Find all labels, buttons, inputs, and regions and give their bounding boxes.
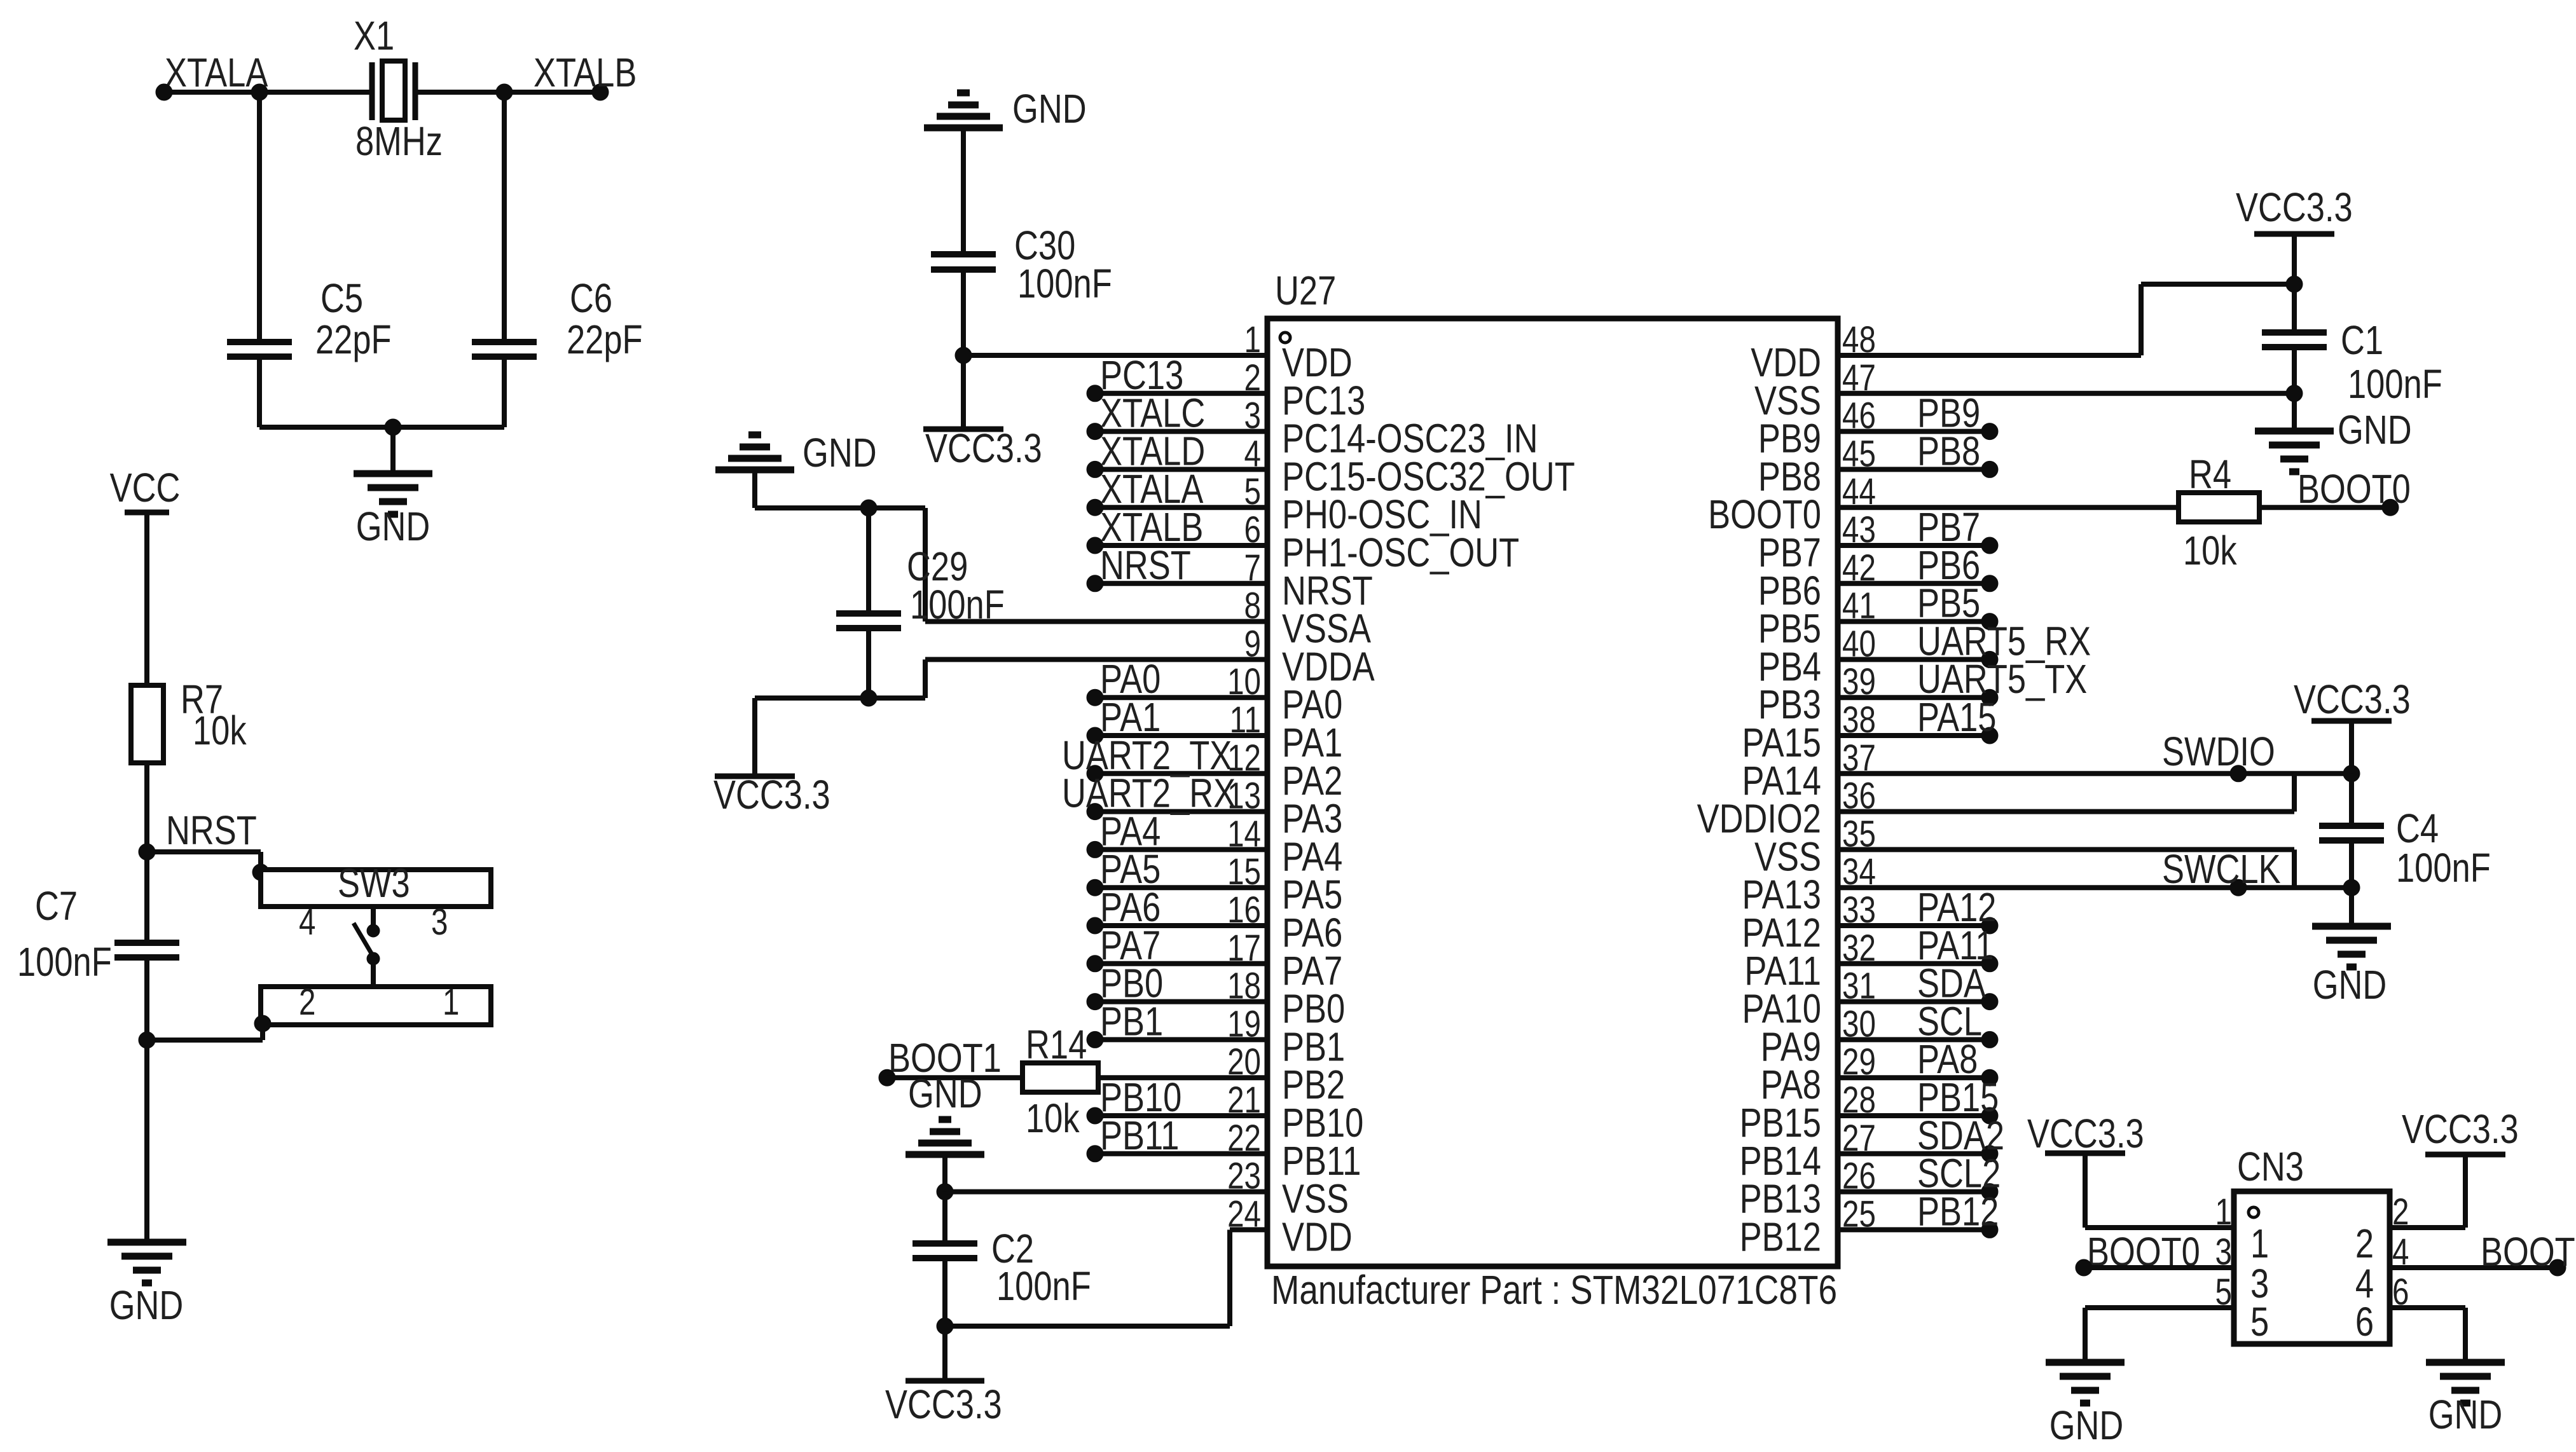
node UART2_TX <box>1062 733 1232 778</box>
wire <box>1838 923 1990 928</box>
svg-text:GND: GND <box>356 504 430 549</box>
power VCC3.3 <box>2027 1111 2144 1156</box>
ground <box>2312 926 2391 967</box>
pin number 3 <box>1244 395 1261 437</box>
resistor R4 <box>2179 493 2259 522</box>
value 100nF <box>2396 846 2491 891</box>
pin 1 <box>443 982 459 1024</box>
power VCC3.3 <box>885 1381 1002 1427</box>
svg-text:8MHz: 8MHz <box>355 119 443 164</box>
junction <box>1981 613 1998 630</box>
ground <box>2046 1362 2125 1403</box>
pin 2 <box>299 982 315 1024</box>
pin number 31 <box>1842 966 1876 1007</box>
wire <box>942 1326 947 1381</box>
label GND <box>2338 408 2412 453</box>
wire <box>2349 840 2354 926</box>
wire <box>1838 961 1990 966</box>
junction <box>254 1015 271 1032</box>
label GND <box>908 1071 982 1116</box>
label GND <box>109 1283 184 1328</box>
wire <box>1095 1113 1267 1118</box>
capacitor C7 <box>114 943 179 957</box>
node BOOT1 <box>2481 1229 2576 1275</box>
pin name VSS <box>1282 1177 1349 1222</box>
pin number 12 <box>1227 737 1261 779</box>
wire <box>1838 1113 1990 1118</box>
value 100nF <box>1017 261 1112 306</box>
junction <box>592 84 609 100</box>
wire <box>923 508 928 622</box>
pin name VDD <box>1282 340 1353 385</box>
junction <box>860 690 877 706</box>
junction <box>1087 1107 1103 1124</box>
resistor R7 <box>131 685 163 763</box>
pin name PA14 <box>1742 758 1821 804</box>
pin 5 <box>2250 1299 2269 1345</box>
wire <box>2349 774 2354 826</box>
node BOOT1 <box>888 1036 1002 1081</box>
power VCC3.3 <box>2294 677 2411 722</box>
node PB11 <box>1100 1113 1179 1158</box>
pin 4 <box>2355 1261 2374 1306</box>
svg-text:VCC3.3: VCC3.3 <box>2294 677 2411 722</box>
pin name PB12 <box>1740 1215 1821 1260</box>
pin name PB7 <box>1758 530 1821 575</box>
junction <box>2286 276 2303 292</box>
junction <box>1087 804 1103 820</box>
node SDA <box>1917 961 1986 1006</box>
pin name VDD <box>1282 1215 1353 1260</box>
wire <box>144 957 149 1242</box>
wire <box>260 1024 265 1040</box>
ground <box>906 1120 984 1154</box>
pin number 15 <box>1227 852 1261 893</box>
junction <box>1981 1146 1998 1162</box>
ground <box>924 93 1003 128</box>
wire <box>925 619 1267 624</box>
node XTALB <box>534 50 637 95</box>
junction <box>1981 955 1998 972</box>
node PB15 <box>1917 1075 1999 1120</box>
label R4 <box>2189 452 2231 497</box>
wire <box>1095 809 1267 814</box>
wire <box>147 1038 263 1043</box>
power VCC3.3 <box>2236 185 2353 234</box>
junction <box>1087 879 1103 896</box>
wire <box>1838 999 1990 1004</box>
wire <box>1095 695 1267 700</box>
pin 5 <box>2215 1272 2232 1313</box>
svg-text:GND: GND <box>2338 408 2412 453</box>
pin name PA5 <box>1282 872 1342 917</box>
pin name PA8 <box>1761 1062 1821 1107</box>
svg-text:CN3: CN3 <box>2237 1144 2304 1189</box>
switch SW3 <box>261 870 491 1025</box>
pin number 18 <box>1227 966 1261 1007</box>
svg-text:100nF: 100nF <box>910 582 1005 627</box>
svg-text:100nF: 100nF <box>1017 261 1112 306</box>
svg-text:VCC3.3: VCC3.3 <box>925 426 1042 471</box>
node XTALD <box>1100 429 1205 474</box>
pin name VDD <box>1751 340 1821 385</box>
pin number 2 <box>1244 357 1261 399</box>
wire <box>1838 391 2294 396</box>
wire <box>1838 505 2179 510</box>
ground <box>354 474 432 514</box>
wire <box>2083 1153 2088 1228</box>
pin name PA15 <box>1742 720 1821 765</box>
pin number 11 <box>1230 700 1261 741</box>
label GND <box>356 504 430 549</box>
pin name VDDA <box>1282 645 1375 690</box>
capacitor C2 <box>913 1243 977 1258</box>
svg-text:C5: C5 <box>320 276 363 321</box>
pin name PC15-OSC32_OUT <box>1282 455 1575 500</box>
wire <box>1098 1075 1267 1080</box>
label GND <box>2313 962 2387 1008</box>
svg-text:U27: U27 <box>1275 268 1336 313</box>
pin name PH1-OSC_OUT <box>1282 530 1519 575</box>
node PA7 <box>1100 923 1161 968</box>
pin name PA7 <box>1282 949 1342 994</box>
wire <box>866 628 871 698</box>
junction <box>1981 1221 1998 1238</box>
svg-text:C1: C1 <box>2341 318 2383 363</box>
pin-1 mark <box>1280 332 1290 343</box>
power VCC <box>110 465 181 512</box>
label CN3 <box>2237 1144 2304 1189</box>
wire <box>942 1192 947 1243</box>
pin 2 <box>2392 1192 2409 1233</box>
wire <box>1838 1075 1990 1080</box>
svg-text:5: 5 <box>2250 1299 2269 1345</box>
junction <box>251 84 268 100</box>
svg-text:10k: 10k <box>193 708 247 753</box>
junction <box>2230 765 2247 782</box>
capacitor C6 <box>472 342 537 357</box>
wire <box>1095 885 1267 890</box>
junction <box>139 1032 155 1048</box>
pin name PB0 <box>1282 987 1345 1032</box>
wire <box>1838 619 1990 624</box>
wire <box>961 270 966 429</box>
value 22pF <box>567 317 643 362</box>
junction <box>1087 727 1103 744</box>
wire <box>2083 1308 2088 1362</box>
node PA11 <box>1917 923 1994 968</box>
wire <box>887 1075 1023 1080</box>
node PA8 <box>1917 1037 1978 1082</box>
label GND <box>2428 1392 2503 1437</box>
node PB10 <box>1100 1075 1181 1120</box>
svg-text:VCC3.3: VCC3.3 <box>2402 1107 2519 1152</box>
node SCL <box>1917 999 1982 1044</box>
pin number 42 <box>1842 547 1876 589</box>
svg-text:8: 8 <box>1244 586 1261 627</box>
wire <box>1838 467 1990 472</box>
node PC13 <box>1100 353 1183 398</box>
svg-text:100nF: 100nF <box>2396 846 2491 891</box>
wire <box>257 357 262 427</box>
wire <box>1095 923 1267 928</box>
junction <box>1087 689 1103 706</box>
node PB0 <box>1100 961 1163 1006</box>
svg-text:100nF: 100nF <box>996 1264 1091 1309</box>
svg-text:1: 1 <box>2215 1192 2232 1233</box>
wire <box>2292 234 2297 332</box>
junction <box>860 500 877 516</box>
svg-text:GND: GND <box>2049 1403 2124 1448</box>
svg-text:3: 3 <box>431 902 448 943</box>
pin name PB1 <box>1282 1025 1345 1070</box>
node PB8 <box>1917 429 1980 474</box>
svg-text:GND: GND <box>2428 1392 2503 1437</box>
wire <box>2085 1305 2234 1310</box>
ground <box>107 1242 186 1283</box>
label GND <box>2049 1403 2124 1448</box>
pin name PC13 <box>1282 378 1365 423</box>
pin number 21 <box>1227 1080 1261 1121</box>
pin name PB5 <box>1758 606 1821 652</box>
pin number 41 <box>1842 586 1876 627</box>
pin number 22 <box>1227 1118 1261 1159</box>
node PB7 <box>1917 505 1980 550</box>
wire <box>1095 771 1267 776</box>
pin name PB4 <box>1758 645 1821 690</box>
svg-text:GND: GND <box>109 1283 184 1328</box>
pin number 40 <box>1842 624 1876 665</box>
pin number 35 <box>1842 814 1876 855</box>
junction <box>496 84 513 100</box>
pin 3 <box>431 902 448 943</box>
wire <box>1838 657 1990 662</box>
junction <box>879 1069 895 1086</box>
pin 6 <box>2392 1272 2409 1313</box>
value 100nF <box>910 582 1005 627</box>
svg-text:6: 6 <box>2392 1272 2409 1313</box>
svg-text:GND: GND <box>802 430 877 476</box>
node PB1 <box>1100 999 1163 1044</box>
pin number 20 <box>1227 1042 1261 1083</box>
junction <box>1981 461 1998 477</box>
svg-text:VDD: VDD <box>1282 1215 1353 1260</box>
pin name PB3 <box>1758 682 1821 727</box>
pin name PB13 <box>1740 1177 1821 1222</box>
node BOOT0 <box>2087 1229 2200 1275</box>
wire <box>390 427 396 474</box>
pin number 43 <box>1842 510 1876 551</box>
wire <box>259 425 504 430</box>
junction <box>2230 879 2247 896</box>
pin name PH0-OSC_IN <box>1282 492 1482 537</box>
pin number 6 <box>1244 510 1261 551</box>
wire <box>1838 695 1990 700</box>
label C4 <box>2396 806 2439 851</box>
wire <box>1095 467 1267 472</box>
capacitor C30 <box>931 254 996 270</box>
pin name PB14 <box>1740 1139 1821 1184</box>
pin name PB9 <box>1758 416 1821 462</box>
wire <box>1838 1227 1990 1232</box>
node UART2_RX <box>1062 771 1236 816</box>
junction <box>1087 499 1103 516</box>
wire <box>502 357 507 427</box>
pin 2 <box>2355 1221 2374 1266</box>
node PB12 <box>1917 1189 1999 1235</box>
pin name PA13 <box>1742 872 1821 917</box>
svg-text:NRST: NRST <box>1100 543 1191 588</box>
svg-text:20: 20 <box>1227 1042 1261 1083</box>
wire <box>2259 505 2390 510</box>
pin number 32 <box>1842 928 1876 969</box>
pin name PA9 <box>1761 1025 1821 1070</box>
label X1 <box>354 13 394 58</box>
svg-text:4: 4 <box>2392 1232 2409 1273</box>
wire <box>961 128 966 254</box>
wire <box>1838 353 2141 358</box>
svg-text:XTALB: XTALB <box>534 50 637 95</box>
node PB6 <box>1917 543 1980 588</box>
wire <box>2390 1305 2465 1310</box>
junction <box>1981 1107 1998 1124</box>
connector CN3 <box>2234 1191 2390 1344</box>
junction <box>156 84 172 100</box>
pin number 38 <box>1842 700 1876 741</box>
pin 4 <box>299 902 315 943</box>
wire <box>2085 1225 2234 1230</box>
pin 3 <box>2250 1261 2269 1306</box>
junction <box>1087 385 1103 402</box>
wire <box>1838 733 1990 738</box>
wire <box>942 1258 947 1326</box>
node SWDIO <box>2162 729 2275 774</box>
value 8MHz <box>355 119 443 164</box>
node PA1 <box>1100 695 1161 740</box>
pin number 14 <box>1227 814 1261 855</box>
ground <box>2255 431 2334 472</box>
junction <box>1981 917 1998 934</box>
junction <box>2343 879 2360 896</box>
wire <box>945 1324 1230 1329</box>
wire <box>1838 1151 1990 1156</box>
node SDA2 <box>1917 1113 2004 1158</box>
junction <box>955 347 972 364</box>
wire <box>925 657 1267 662</box>
svg-text:BOOT0: BOOT0 <box>2297 467 2411 512</box>
label R7 <box>181 677 223 722</box>
svg-text:BOOT1: BOOT1 <box>2481 1229 2576 1275</box>
svg-text:SW3: SW3 <box>338 861 410 906</box>
wire <box>1095 1151 1267 1156</box>
junction <box>2286 385 2303 402</box>
junction <box>1981 1184 1998 1200</box>
junction <box>385 419 401 435</box>
label C5 <box>320 276 363 321</box>
pin name VSSA <box>1282 606 1371 652</box>
pin number 34 <box>1842 852 1876 893</box>
node BOOT0 <box>2297 467 2411 512</box>
wire <box>2390 1225 2465 1230</box>
op-amp U27 body <box>1267 318 1838 1266</box>
pin name PA0 <box>1282 682 1342 727</box>
pin number 8 <box>1244 586 1261 627</box>
wire <box>164 90 374 95</box>
svg-text:SWDIO: SWDIO <box>2162 729 2275 774</box>
wire <box>1095 1037 1267 1042</box>
pin number 5 <box>1244 472 1261 513</box>
pin number 23 <box>1227 1156 1261 1197</box>
junction <box>1087 1031 1103 1048</box>
svg-text:PA15: PA15 <box>1917 695 1996 740</box>
value 100nF <box>2348 362 2442 407</box>
pin number 30 <box>1842 1004 1876 1045</box>
pin number 24 <box>1227 1194 1261 1235</box>
svg-text:C4: C4 <box>2396 806 2439 851</box>
pin 6 <box>2355 1299 2374 1345</box>
svg-text:4: 4 <box>299 902 315 943</box>
wire <box>1095 999 1267 1004</box>
wire <box>144 763 149 943</box>
pin name PA10 <box>1742 987 1821 1032</box>
wire <box>2141 282 2294 287</box>
svg-text:10k: 10k <box>1026 1096 1080 1141</box>
wire <box>2292 347 2297 431</box>
pin number 13 <box>1227 776 1261 817</box>
capacitor C1 <box>2262 332 2327 347</box>
svg-text:PB12: PB12 <box>1740 1215 1821 1260</box>
svg-text:1: 1 <box>1244 320 1261 361</box>
node UART5_RX <box>1917 619 2091 664</box>
label C29 <box>907 544 968 589</box>
crystal X1 <box>372 61 415 120</box>
value Manufacturer Part <box>1271 1268 1837 1313</box>
svg-text:VCC3.3: VCC3.3 <box>2236 185 2353 230</box>
node PA5 <box>1100 847 1161 892</box>
node PB9 <box>1917 391 1980 436</box>
junction <box>1981 994 1998 1010</box>
label C30 <box>1014 223 1075 268</box>
junction <box>1087 955 1103 972</box>
wire <box>2390 1265 2558 1270</box>
pin name PA4 <box>1282 835 1342 880</box>
node PA12 <box>1917 885 1996 930</box>
pin number 37 <box>1842 737 1876 779</box>
node XTALA <box>165 50 268 95</box>
svg-text:23: 23 <box>1227 1156 1261 1197</box>
pin number 1 <box>1244 320 1261 361</box>
wire <box>2084 1265 2234 1270</box>
svg-text:GND: GND <box>1012 86 1087 132</box>
label C7 <box>35 884 78 929</box>
pin number 46 <box>1842 395 1876 437</box>
wire <box>2139 284 2144 355</box>
wire <box>1838 1037 1990 1042</box>
pin number 44 <box>1842 472 1876 513</box>
pin number 10 <box>1227 662 1261 703</box>
junction <box>1981 1031 1998 1048</box>
svg-text:PB11: PB11 <box>1100 1113 1179 1158</box>
junction <box>1087 575 1103 592</box>
label C2 <box>991 1226 1034 1271</box>
value 10k <box>193 708 247 753</box>
junction <box>1981 651 1998 668</box>
wire <box>1095 543 1267 548</box>
pin name BOOT0 <box>1708 492 1821 537</box>
svg-text:1: 1 <box>443 982 459 1024</box>
wire <box>1838 429 1990 434</box>
ground <box>715 435 794 470</box>
